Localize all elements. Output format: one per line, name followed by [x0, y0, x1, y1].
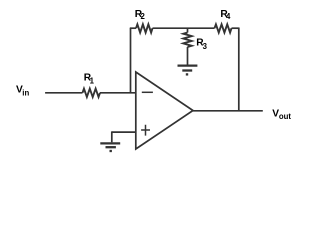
wire top-left corner to R2: [130, 27, 136, 29]
wire output: [193, 110, 263, 112]
node Vin input wire: [45, 92, 82, 94]
wire R2 to R4: [153, 27, 215, 29]
svg-text:4: 4: [226, 12, 231, 21]
label R2: [135, 9, 146, 21]
wire non-inverting input: [112, 131, 136, 133]
wire right vertical to output: [238, 28, 240, 111]
label R4: [220, 9, 231, 21]
op-amp plus sign: [141, 125, 150, 136]
svg-text:2: 2: [141, 12, 146, 21]
wire R4 to right corner: [232, 27, 239, 29]
wire R3 to ground: [187, 47, 189, 65]
label Vout: [272, 108, 291, 121]
wire feedback vertical: [130, 28, 132, 93]
wire R1 to op-amp inverting input: [100, 92, 136, 94]
label Vin: [16, 84, 29, 97]
op-amp U1 triangle: [136, 72, 193, 149]
op-amp minus sign: [142, 91, 153, 93]
wire ground stem (plus input): [111, 131, 113, 142]
resistor R4: [215, 24, 232, 32]
label R3: [196, 38, 207, 52]
label R1: [84, 73, 95, 86]
svg-text:1: 1: [90, 76, 95, 85]
resistor R3: [183, 33, 191, 48]
wire R3 top stub: [187, 28, 189, 32]
svg-text:out: out: [279, 112, 292, 121]
ground under R3: [178, 66, 198, 75]
resistor R2: [136, 24, 153, 32]
resistor R1: [83, 89, 101, 97]
svg-text:in: in: [22, 88, 29, 97]
ground at non-inverting input: [100, 143, 120, 151]
svg-text:3: 3: [203, 42, 208, 51]
